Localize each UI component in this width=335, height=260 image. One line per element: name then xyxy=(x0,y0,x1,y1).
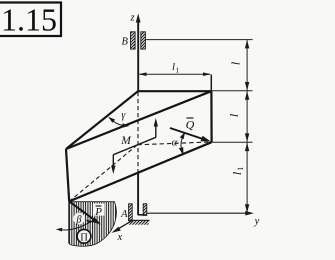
svg-text:1: 1 xyxy=(176,66,180,75)
label P bar on white badge xyxy=(93,204,105,218)
plane label Pi in circle xyxy=(77,229,91,243)
y axis arrow xyxy=(147,211,254,216)
svg-text:M: M xyxy=(120,135,132,147)
bearing A shaft foot xyxy=(138,214,145,216)
svg-text:1.15: 1.15 xyxy=(1,2,57,38)
force P arrow xyxy=(69,201,101,224)
problem number box 1.15 xyxy=(0,2,61,38)
svg-text:1: 1 xyxy=(236,167,245,171)
svg-text:Π: Π xyxy=(80,232,88,243)
svg-text:P: P xyxy=(94,206,102,218)
svg-text:β: β xyxy=(76,214,82,225)
angle gamma arc xyxy=(108,117,129,128)
svg-text:Q: Q xyxy=(186,118,195,132)
extension line at right lower corner xyxy=(212,141,253,143)
bearing A bottom hatch strip xyxy=(129,221,149,225)
svg-text:α: α xyxy=(172,137,178,149)
hidden edge dashed (corner to shaft) xyxy=(69,145,137,202)
shaft AB (z axis solid upper part) xyxy=(137,21,139,92)
shaft hidden part (dashed behind plate) xyxy=(137,92,139,173)
bearing B right block xyxy=(141,32,146,49)
plate right edge xyxy=(210,91,212,142)
force Q arrow xyxy=(170,128,211,141)
vertical dimension line segment l (B to top edge) xyxy=(245,40,249,91)
couple M up arrow xyxy=(154,118,158,138)
svg-text:A: A xyxy=(120,209,128,220)
plate left edge xyxy=(66,149,69,201)
plate fold line (hypotenuse) xyxy=(66,91,211,149)
z axis arrow xyxy=(136,14,141,33)
plate bottom front edge xyxy=(69,142,211,201)
svg-text:B: B xyxy=(121,36,128,47)
riser from l1 dim to plate corner xyxy=(210,75,212,92)
angle beta arc xyxy=(56,220,94,232)
svg-text:x: x xyxy=(116,232,122,243)
angle alpha arc xyxy=(179,132,185,156)
label Q bar xyxy=(186,118,195,132)
extension line from B to dimension line xyxy=(146,39,253,41)
plate top edge xyxy=(138,90,212,92)
label beta on white badge xyxy=(73,213,84,226)
svg-text:y: y xyxy=(254,216,260,227)
dimension l1 horizontal (top) xyxy=(139,72,212,76)
label l1 (third) rotated xyxy=(230,167,245,175)
bearing A right wall hatched xyxy=(143,204,147,216)
svg-text:z: z xyxy=(129,13,134,24)
plate upper-left edge xyxy=(66,91,138,149)
couple M lever xyxy=(113,137,155,154)
plane P (Pi) hatched patch xyxy=(69,202,117,247)
couple M down arrow xyxy=(111,155,115,174)
bearing A cup bottom xyxy=(128,219,150,221)
extension line at plate top corner xyxy=(212,90,253,92)
shaft lower solid part xyxy=(137,173,139,216)
x axis arrow xyxy=(111,221,132,233)
hidden edge dashed (shaft to right corner) xyxy=(137,142,211,145)
bearing A left wall hatched xyxy=(129,204,133,220)
vertical dimension line segment l1 (corner to y axis) xyxy=(245,143,249,213)
vertical dimension line segment l (top edge to corner) xyxy=(245,91,249,142)
bearing B left block xyxy=(131,32,136,49)
